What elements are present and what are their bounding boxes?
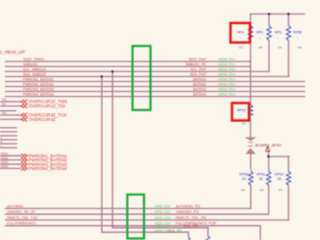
red highlight box RP4 (231, 23, 251, 43)
svg-text:BATEN1: BATEN1 (193, 77, 206, 81)
svg-text:1%: 1% (297, 45, 302, 49)
resistor SCL pulldown (cut off) (206, 236, 210, 240)
wire RP6 bottom lead (288, 41, 290, 77)
svg-text:RP51: RP51 (257, 173, 266, 177)
svg-text:RP4: RP4 (237, 31, 244, 35)
wire stub1 (0, 127, 17, 129)
svg-text:RP6: RP6 (275, 31, 282, 35)
red highlight box RP49 (232, 103, 249, 121)
wire PWRON3_BATEN3 (6, 91, 306, 93)
wire stub6 (0, 147, 17, 149)
svg-text:TMS: TMS (2, 99, 7, 102)
net labels right of green box 1 (185, 57, 206, 96)
svg-text:ATEN1: ATEN1 (1, 153, 9, 156)
svg-text:FULLPWRMGMTZ: FULLPWRMGMTZ (7, 222, 36, 226)
svg-text:1%: 1% (241, 188, 246, 192)
wire PWRON1 stub (0, 155, 21, 157)
svg-text:«(R44.7K)»: «(R44.7K)» (218, 73, 236, 77)
wire 3P3V to RP51 (268, 157, 270, 172)
svg-text:OVERCUR1Z_TDI: OVERCUR1Z_TDI (29, 104, 66, 109)
svg-text:x: x (297, 38, 298, 40)
wire RP5 top lead (268, 14, 270, 25)
wire stub4 (0, 139, 17, 141)
svg-text:x: x (278, 38, 279, 40)
svg-text:«(R34.7K)»: «(R34.7K)» (218, 68, 236, 72)
wire PWRON1_BATEN1 (6, 81, 306, 83)
green highlight box 2 (127, 195, 144, 239)
svg-text:GANGED_PU: GANGED_PU (176, 210, 199, 214)
wire RP49 bottom to ground arrow (250, 119, 252, 137)
svg-text:BATEN4: BATEN4 (193, 92, 206, 96)
svg-text:RP5: RP5 (256, 31, 263, 35)
wire OVERCUR1Z stub (0, 105, 21, 107)
wire stub2 (0, 131, 17, 133)
svg-text:ATEN2: ATEN2 (1, 157, 9, 160)
svg-text:«(R54 1K)»: «(R54 1K)» (154, 224, 171, 228)
tolerance labels 1% (239, 45, 302, 192)
svg-text:PWRON4_BATEN4: PWRON4_BATEN4 (29, 166, 68, 171)
svg-text:«(R44.7K)»: «(R44.7K)» (218, 93, 236, 97)
resistor RP5 (267, 26, 271, 41)
svg-text:AUTOEN2_PD: AUTOEN2_PD (176, 204, 201, 208)
svg-text:OVERCUR4Z: OVERCUR4Z (29, 117, 56, 122)
wire SCL_PD row (113, 227, 209, 229)
wire top rail (251, 13, 306, 15)
svg-text:TDI: TDI (2, 103, 6, 106)
bottom red labels (176, 204, 217, 228)
svg-text:BATEN2: BATEN2 (193, 82, 206, 86)
svg-text:1%: 1% (278, 188, 283, 192)
bottom green annotations (154, 204, 182, 233)
svg-text:«(R52 1K)»: «(R52 1K)» (154, 216, 171, 220)
wire OVERCUR3Z stub (0, 114, 21, 116)
wire OVERCUR4Z stub (0, 118, 21, 120)
wire FULLPWRMGMTZ down (259, 226, 261, 240)
wire OVERCUR2Z stub (0, 101, 21, 103)
green highlight box 1 (133, 46, 151, 110)
wire TEST_TPAT2 (6, 61, 251, 63)
wire AUTOEN2 row (6, 208, 251, 210)
svg-text:SCL_PUP: SCL_PUP (191, 67, 207, 71)
svg-text:PARCTL_FDL_TXD: PARCTL_FDL_TXD (7, 216, 38, 220)
svg-text:PWRON4_BATEN4: PWRON4_BATEN4 (23, 93, 54, 97)
wire TDO purple stub (0, 110, 16, 112)
svg-text:«(R34.7K)»: «(R34.7K)» (218, 63, 236, 67)
junction dot rail RP5 (268, 13, 270, 15)
wire stub3 (0, 135, 17, 137)
wire SDA_SMBDAT (6, 76, 289, 78)
bottom left net labels (7, 204, 38, 225)
svg-text:1%: 1% (239, 45, 244, 49)
net labels left top (23, 58, 54, 97)
svg-text:x: x (259, 38, 260, 40)
svg-text:«(R34.7K)»: «(R34.7K)» (218, 58, 236, 62)
svg-text:SMBUS2_PD: SMBUS2_PD (185, 62, 206, 66)
junction dot 3P3V (267, 155, 269, 157)
power arrow up (246, 148, 256, 154)
wire SCL_SMBCLK (6, 71, 270, 73)
svg-text:1%: 1% (260, 188, 265, 192)
wire SDA branch vertical (101, 77, 103, 233)
svg-text:B_VBUS_UP: B_VBUS_UP (0, 50, 25, 55)
svg-text:SDA_PD: SDA_PD (168, 229, 182, 233)
svg-text:«(R44.7K)»: «(R44.7K)» (218, 88, 236, 92)
resistor RP6 (286, 26, 290, 41)
tiny labels above left stubs (1, 99, 9, 169)
svg-text:SMBUS2: SMBUS2 (23, 63, 37, 67)
wire PWRON4_BATEN4 (6, 96, 306, 98)
svg-text:RP49: RP49 (237, 109, 246, 113)
wire GANGED row (6, 213, 269, 215)
svg-text:SDA_PUP: SDA_PUP (190, 72, 207, 76)
svg-text:1K: 1K (277, 177, 282, 181)
svg-text:PWRON3_BATEN3: PWRON3_BATEN3 (23, 88, 54, 92)
svg-text:TCK: TCK (2, 112, 7, 115)
wire SMBUS2 (6, 66, 251, 68)
svg-text:1%: 1% (258, 45, 263, 49)
svg-text:BOARD_3P3V: BOARD_3P3V (255, 142, 282, 147)
ground arrow down (245, 137, 257, 141)
resistor RP51 (267, 171, 271, 186)
junction dot SDA (101, 75, 103, 77)
svg-text:BATEN3: BATEN3 (193, 87, 206, 91)
svg-text:RP65: RP65 (293, 31, 302, 35)
junction dot rail RP6 (287, 13, 289, 15)
svg-text:TEST_TPAT2: TEST_TPAT2 (23, 58, 44, 62)
svg-text:x: x (240, 38, 241, 40)
svg-text:RP52: RP52 (275, 173, 284, 177)
svg-text:RP50: RP50 (239, 173, 248, 177)
svg-text:SDA_SMBDAT: SDA_SMBDAT (23, 73, 47, 77)
wire stub5 (0, 143, 17, 145)
wire SDA_PD down (188, 232, 190, 237)
junction dot SCL (111, 70, 113, 72)
wire FULLPWRMGMTZ row (6, 225, 261, 227)
svg-text:PWRON2_BATEN2: PWRON2_BATEN2 (23, 83, 54, 87)
wire RP6 top lead (288, 14, 290, 25)
wire RP50 bottom lead (250, 186, 252, 209)
resistor gray pins (251, 22, 289, 190)
svg-text:«(R51 1K)»: «(R51 1K)» (154, 210, 171, 214)
svg-text:ATEN4: ATEN4 (1, 165, 9, 168)
wire RP52 top lead (288, 157, 290, 172)
wire PWRON2 stub (0, 159, 21, 161)
port PWRON1_BATEN1 (21, 154, 27, 171)
power symbol BOARD_3P3V (266, 147, 270, 151)
wire RP5 bottom lead (268, 41, 270, 72)
svg-text:1%: 1% (278, 45, 283, 49)
svg-text:R: R (1, 141, 3, 144)
resistor SDA pulldown (cut off) (187, 237, 191, 240)
wire PARCTL row (6, 219, 289, 221)
svg-text:AUTOEN2: AUTOEN2 (7, 204, 23, 208)
wire RP51 bottom lead (268, 186, 270, 215)
svg-text:«(R44.7K)»: «(R44.7K)» (218, 83, 236, 87)
resistor RP50 (249, 171, 253, 186)
svg-text:GANGED_HS_UP: GANGED_HS_UP (7, 210, 36, 214)
wire BOARD_3P3V lead (267, 151, 269, 156)
wire PWRON4 stub (0, 167, 21, 169)
wire RP4 top lead (250, 14, 252, 25)
resistor RP49 (248, 105, 252, 119)
wire RP52 bottom lead (288, 186, 290, 221)
reference designators blue (237, 31, 302, 181)
svg-text:1K: 1K (259, 177, 264, 181)
wire SCL branch vertical (112, 72, 114, 228)
wire PWRON3 stub (0, 163, 21, 165)
green value annotations top (218, 58, 236, 97)
wire SDA_PD row (102, 231, 189, 233)
svg-text:C: C (1, 145, 3, 148)
wire RP50 top lead (250, 154, 252, 168)
svg-text:x: x (241, 115, 242, 117)
label B_VBUS_UP (0, 50, 25, 55)
resistor RP4 (248, 26, 252, 41)
wire PWRON2_BATEN2 (6, 86, 306, 88)
wire 3P3V horizontal to RP52 (268, 156, 289, 158)
svg-text:1K: 1K (242, 177, 247, 181)
wire RP4 bottom to RP49 top (250, 41, 252, 105)
svg-text:SCL_SMBCLK: SCL_SMBCLK (23, 68, 47, 72)
svg-text:SCL_PD: SCL_PD (184, 224, 199, 228)
svg-text:TEST_PUP: TEST_PUP (188, 57, 206, 61)
svg-text:«(R44.7K)»: «(R44.7K)» (218, 78, 236, 82)
port OVERCUR2Z_TMS (21, 100, 27, 122)
svg-text:PARCTL_FDL_PD: PARCTL_FDL_PD (176, 216, 207, 220)
resistor RP52 (286, 171, 290, 186)
svg-text:«(R50 1K)»: «(R50 1K)» (154, 204, 171, 208)
svg-text:1%: 1% (241, 122, 246, 126)
svg-text:ATEN3: ATEN3 (1, 161, 9, 164)
svg-text:PWRON1_BATEN1: PWRON1_BATEN1 (23, 78, 54, 82)
wire SCL_PD down (207, 228, 209, 237)
